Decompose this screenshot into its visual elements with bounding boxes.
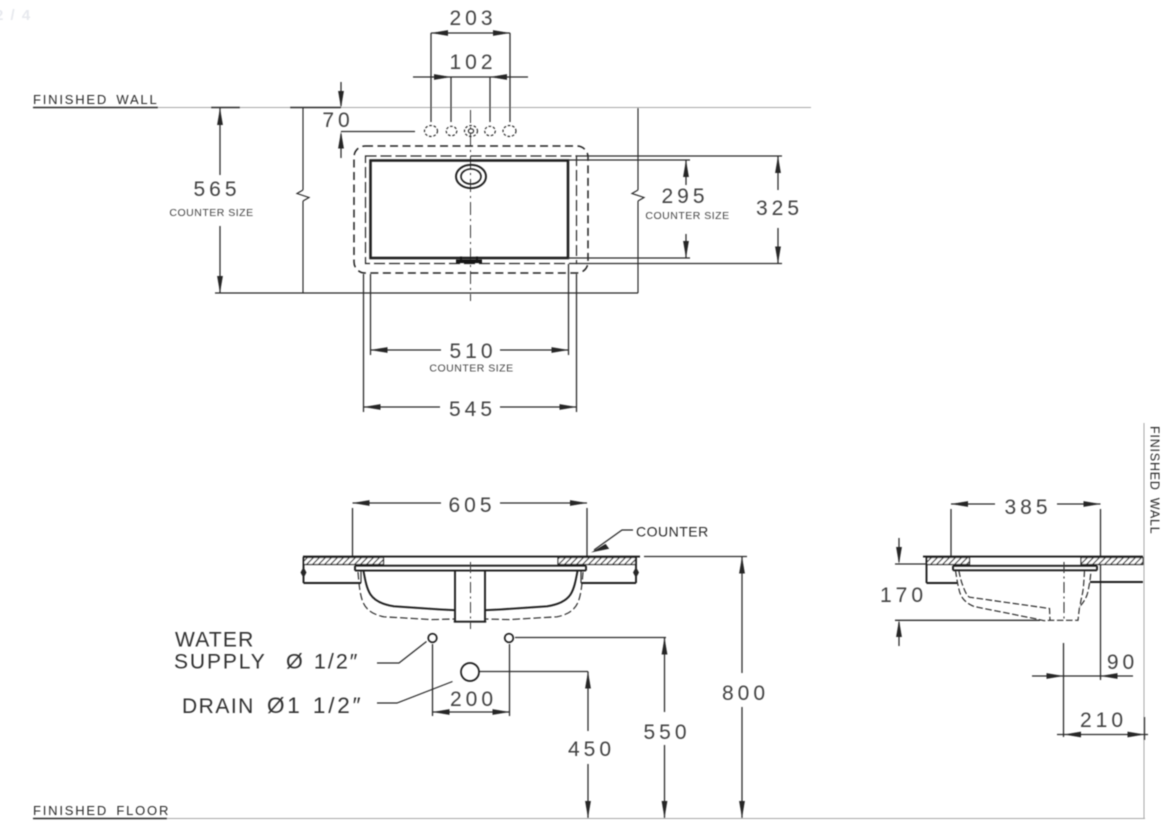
drain hole bbox=[461, 663, 479, 681]
water supply hole left bbox=[428, 634, 437, 643]
dimension 565 bbox=[169, 108, 253, 293]
svg-text:450: 450 bbox=[568, 738, 615, 761]
counter slab left piece (front) bbox=[301, 557, 362, 583]
COUNTER label with leader bbox=[591, 524, 709, 553]
overflow slot mark bbox=[456, 257, 482, 264]
dimension 90 bbox=[1032, 651, 1138, 679]
DRAIN label with leader bbox=[182, 682, 453, 719]
svg-text:200: 200 bbox=[450, 688, 497, 711]
dimension 385 bbox=[951, 496, 1101, 680]
finished wall line (side) bbox=[1143, 423, 1145, 818]
counter hatched section front (side) bbox=[927, 558, 970, 565]
dimension 170 bbox=[880, 538, 1040, 646]
basin centerline (plan) bbox=[470, 110, 472, 301]
basin outer shell (front) bbox=[358, 572, 583, 620]
dimension 800 bbox=[644, 557, 769, 819]
dimension 450 bbox=[568, 672, 615, 819]
svg-text:385: 385 bbox=[1004, 496, 1051, 519]
water supply hole right bbox=[505, 634, 514, 643]
counter cut-out solid rect 510x295 bbox=[371, 161, 569, 259]
counter bottom edge (plan) bbox=[215, 292, 638, 294]
svg-text:FINISHED WALL: FINISHED WALL bbox=[33, 92, 159, 107]
FINISHED FLOOR label bbox=[33, 803, 170, 818]
svg-text:Ø 1/2″: Ø 1/2″ bbox=[286, 650, 359, 674]
dimension 510 bbox=[371, 264, 569, 375]
basin inner bowl (side) bbox=[959, 571, 1085, 621]
svg-text:605: 605 bbox=[448, 494, 495, 517]
svg-text:545: 545 bbox=[449, 398, 496, 421]
basin body dashed rect 545x325 bbox=[366, 156, 577, 264]
counter hatched section back (side) bbox=[1081, 558, 1143, 565]
svg-text:800: 800 bbox=[722, 682, 769, 705]
svg-text:210: 210 bbox=[1080, 709, 1127, 732]
basin outer shell (side) bbox=[956, 571, 1092, 621]
counter top line (side) bbox=[923, 556, 1143, 558]
svg-text:SUPPLY: SUPPLY bbox=[174, 651, 267, 674]
dimension 70 bbox=[322, 82, 415, 158]
counter slab back edge (side) bbox=[1090, 581, 1143, 583]
dimension 203 bbox=[431, 7, 510, 122]
svg-text:203: 203 bbox=[449, 7, 496, 30]
FINISHED WALL label bbox=[33, 92, 159, 107]
svg-text:102: 102 bbox=[449, 51, 496, 74]
dimension 295 bbox=[568, 160, 730, 258]
dimension 545 bbox=[364, 274, 577, 421]
faucet holes row bbox=[425, 126, 517, 137]
counter right edge with break bbox=[632, 108, 644, 293]
svg-text:510: 510 bbox=[449, 340, 496, 363]
svg-text:170: 170 bbox=[880, 584, 927, 607]
WATER SUPPLY label with leader bbox=[174, 629, 427, 674]
basin inner bowl (front) bbox=[364, 571, 578, 610]
supply level reference line bbox=[515, 637, 666, 639]
svg-text:COUNTER SIZE: COUNTER SIZE bbox=[645, 210, 729, 222]
dimension 325 bbox=[576, 156, 803, 264]
dimension 605 bbox=[353, 494, 588, 556]
finished floor line bbox=[33, 818, 1145, 820]
dimension 102 bbox=[413, 51, 528, 122]
counter hatched section right (front) bbox=[558, 558, 636, 565]
drain extension line (side) bbox=[1063, 643, 1065, 737]
basin centerline (front) bbox=[470, 562, 472, 629]
svg-text:325: 325 bbox=[756, 197, 803, 220]
counter slab right piece (front) bbox=[581, 557, 639, 583]
svg-text:COUNTER: COUNTER bbox=[636, 524, 709, 540]
basin outer rim dashed rounded rect bbox=[354, 146, 588, 273]
basin rim band (side) bbox=[953, 566, 1097, 571]
basin rim band (front) bbox=[355, 566, 586, 571]
svg-text:DRAIN: DRAIN bbox=[182, 695, 255, 718]
counter slab front piece (side) bbox=[927, 557, 958, 583]
counter hatched section left (front) bbox=[304, 558, 384, 565]
counter left edge with break bbox=[297, 108, 309, 293]
svg-text:565: 565 bbox=[193, 178, 240, 201]
drain level reference line bbox=[480, 671, 589, 673]
svg-text:COUNTER SIZE: COUNTER SIZE bbox=[169, 207, 253, 219]
svg-text:COUNTER SIZE: COUNTER SIZE bbox=[429, 363, 513, 375]
svg-text:Ø1 1/2″: Ø1 1/2″ bbox=[267, 693, 363, 718]
svg-text:FINISHED FLOOR: FINISHED FLOOR bbox=[33, 803, 170, 818]
finished wall line (plan) bbox=[33, 107, 811, 109]
FINISHED WALL label vertical bbox=[1148, 426, 1162, 535]
dimension 200 bbox=[433, 644, 510, 716]
drain centerline (side) bbox=[1063, 562, 1065, 621]
svg-text:550: 550 bbox=[643, 721, 690, 744]
page watermark 2/4 bbox=[0, 7, 32, 24]
svg-text:90: 90 bbox=[1107, 651, 1138, 674]
dimension 210 bbox=[1057, 709, 1148, 740]
svg-text:295: 295 bbox=[661, 185, 708, 208]
faucet circle (plan) bbox=[456, 165, 486, 188]
drain channel (front) bbox=[454, 571, 486, 622]
dimension 550 bbox=[643, 638, 690, 819]
svg-text:2 / 4: 2 / 4 bbox=[0, 7, 32, 24]
svg-text:70: 70 bbox=[322, 109, 353, 132]
svg-text:WATER: WATER bbox=[175, 629, 255, 652]
counter top line (front) bbox=[303, 556, 640, 558]
svg-text:FINISHED WALL: FINISHED WALL bbox=[1148, 426, 1162, 535]
